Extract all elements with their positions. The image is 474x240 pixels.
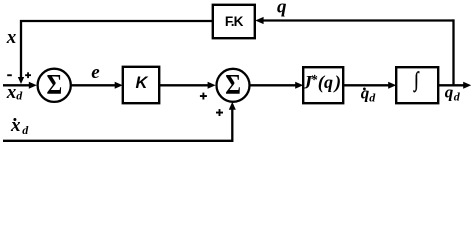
svg-text:q: q <box>445 83 454 102</box>
wire K to summing junction 2 <box>159 82 215 89</box>
label plus (bottom of junction 2) <box>216 109 223 116</box>
block integrator <box>396 67 438 103</box>
wire top feedback horizontal from node to F.K <box>255 17 453 24</box>
svg-text:Σ: Σ <box>225 68 241 101</box>
svg-text:F.K: F.K <box>225 14 244 29</box>
svg-text:K: K <box>136 74 149 92</box>
svg-text:d: d <box>16 89 23 103</box>
wire junction 2 to J*(q) <box>250 82 303 89</box>
wire feedback right vertical <box>452 19 454 85</box>
label x_d <box>6 82 23 103</box>
label minus <box>7 74 12 76</box>
svg-text:q: q <box>277 0 287 18</box>
summing junction 2 <box>217 69 250 102</box>
wire x_d input <box>3 82 37 89</box>
wire J*(q) to integrator <box>343 82 396 89</box>
label integral sign <box>413 68 420 93</box>
svg-text:x: x <box>6 82 17 103</box>
label q_d <box>445 83 461 104</box>
label plus (top of junction 1) <box>25 72 31 78</box>
svg-text:e: e <box>91 62 100 83</box>
svg-text:): ) <box>333 72 341 93</box>
svg-text:d: d <box>22 123 29 137</box>
block K <box>123 67 159 103</box>
label qdot_d <box>361 84 376 105</box>
label plus (left of junction 2) <box>200 93 207 100</box>
wire F.K output to left and down to summing junction 1 <box>18 21 213 84</box>
wire output q_d <box>438 82 471 89</box>
summing junction 1 <box>38 69 71 102</box>
svg-text:d: d <box>454 90 461 104</box>
label xdot_d <box>10 115 29 137</box>
svg-text:q: q <box>324 72 333 92</box>
svg-text:Σ: Σ <box>46 68 62 101</box>
wire e from junction 1 to K <box>71 82 123 89</box>
block J*(q) <box>303 67 343 103</box>
wire xdot_d bottom input <box>3 102 236 141</box>
svg-text:d: d <box>369 91 376 105</box>
block F.K <box>213 5 255 38</box>
svg-text:x: x <box>6 27 17 48</box>
label J*(q) <box>302 72 342 93</box>
